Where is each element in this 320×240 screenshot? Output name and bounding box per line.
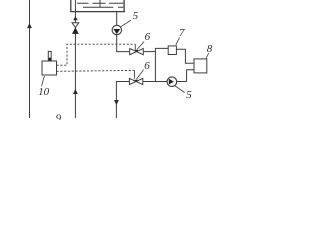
dashed control line D1: box10 upper port to valve 6 top xyxy=(57,44,136,65)
wire: main left vertical pipe x=75 xyxy=(74,0,76,118)
svg-text:5: 5 xyxy=(186,89,192,101)
dashed D1 drop into valve 6 top xyxy=(134,44,136,50)
tank centre gauge line xyxy=(99,0,101,8)
dashed control line D2: box10 lower port to valve 6 bottom xyxy=(57,69,135,72)
leader line to label 6 (bottom) xyxy=(136,70,143,80)
wire: pump 5 bottom to box 8 lower port xyxy=(177,70,194,82)
wire: valve 6 bottom to pump 5 bottom xyxy=(143,81,167,83)
valve 6 (top): bowtie xyxy=(130,49,144,55)
leader line to label 5 (top) xyxy=(121,20,131,27)
flow arrow on far-left pipe (up) xyxy=(27,23,32,28)
wire: far-left vertical pipe xyxy=(29,0,31,118)
box 8 xyxy=(194,59,207,73)
flow arrow on pipe x=75 lower (up) xyxy=(73,89,78,94)
tank (top cut off by image edge) xyxy=(70,0,125,12)
valve 6 (bottom): bowtie xyxy=(129,78,142,84)
leader line to label 5 (bottom) xyxy=(175,86,185,93)
svg-text:6: 6 xyxy=(144,60,150,72)
leader line to label 6 (top) xyxy=(137,42,144,50)
pump 5 (top): circle with filled down triangle xyxy=(112,25,121,34)
leader line to label 8 xyxy=(206,53,209,59)
tank liquid level dashes row A xyxy=(77,2,123,4)
wire: bottom run from corner x=116.5 through valve to riser xyxy=(116,82,129,119)
svg-text:8: 8 xyxy=(207,43,213,55)
dashed D2 drop into bottom valve 6 top xyxy=(133,70,135,78)
box 10 body xyxy=(42,61,57,75)
leader line to label 7 xyxy=(176,38,180,46)
wire: pipe valve 6 to box 7 xyxy=(143,51,156,53)
pump 5 (bottom): circle with filled right triangle xyxy=(167,77,177,87)
leader line to label 10 xyxy=(42,76,45,86)
svg-text:9: 9 xyxy=(56,112,62,120)
node: junction tee at x=156 xyxy=(155,48,168,81)
wire: pipe from tank bottom down to pump 5 xyxy=(116,12,118,26)
wire: pipe from pump 5 down then right to valve 6 xyxy=(117,35,130,52)
tank liquid level dashes row B xyxy=(83,6,123,8)
svg-text:10: 10 xyxy=(38,86,50,98)
box 7 xyxy=(168,46,176,55)
box 10 plunger dark base xyxy=(49,58,51,61)
flow arrow on bottom-right drop line (down) xyxy=(114,100,119,105)
svg-text:5: 5 xyxy=(133,10,139,22)
box 10 plunger nub xyxy=(48,51,51,61)
svg-text:6: 6 xyxy=(145,31,151,43)
check valve on pipe x=75 (two triangles tip to tip) xyxy=(72,23,79,34)
wire: pipe box 7 to box 8 upper port xyxy=(176,49,194,63)
svg-text:7: 7 xyxy=(179,27,185,39)
flow arrow on pipe x=75 near tank (up) xyxy=(73,16,77,20)
